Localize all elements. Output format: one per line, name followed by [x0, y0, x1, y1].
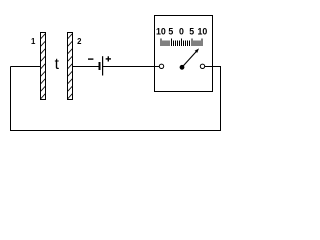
svg-text:5: 5 [189, 26, 194, 36]
galvanometer left terminal [159, 64, 163, 68]
svg-text:10: 10 [198, 26, 208, 36]
galvanometer needle pivot [180, 65, 185, 70]
wire: left horizontal segment to plate 1 [11, 66, 41, 68]
galvanometer needle [182, 52, 196, 68]
galvanometer right terminal [200, 64, 204, 68]
wire: plate 2 to battery [72, 66, 99, 68]
svg-text:t: t [55, 56, 60, 73]
wire: galvanometer right terminal to right vertical segment [205, 66, 221, 68]
svg-text:0: 0 [179, 26, 184, 36]
capacitor plate 1 (hatched electrode) [41, 26, 46, 100]
wire: battery to galvanometer left terminal [103, 66, 159, 68]
svg-text:5: 5 [168, 26, 173, 36]
battery B1 minus polarity sign [88, 58, 93, 59]
wire: bottom horizontal segment [10, 130, 221, 132]
svg-text:10: 10 [156, 26, 166, 36]
wire: right vertical segment [220, 67, 222, 131]
battery B1 positive plate (long thin bar) [102, 56, 103, 75]
galvanometer G case [155, 16, 213, 92]
svg-text:2: 2 [77, 37, 82, 46]
battery B1 plus polarity sign [106, 58, 111, 59]
wire: left vertical segment [10, 67, 12, 131]
battery B1 negative plate (short thick bar) [99, 62, 101, 70]
svg-text:1: 1 [31, 37, 36, 46]
capacitor plate 2 (hatched electrode) [68, 26, 73, 100]
galvanometer scale tick marks [161, 38, 202, 46]
galvanometer needle arrowhead [195, 48, 199, 53]
